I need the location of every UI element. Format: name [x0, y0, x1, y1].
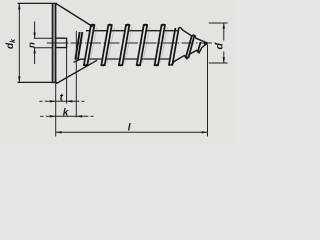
- svg-text:k: k: [63, 107, 69, 118]
- svg-text:d: d: [214, 43, 226, 50]
- svg-text:n: n: [26, 42, 37, 48]
- svg-text:l: l: [128, 123, 131, 134]
